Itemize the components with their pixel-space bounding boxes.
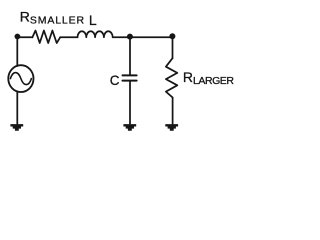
wire capacitor branch upper bbox=[129, 37, 131, 74]
resistor RSMALLER zigzag (horizontal) bbox=[32, 31, 60, 44]
wire left branch down to source bbox=[16, 37, 18, 66]
svg-text:RSMALLER: RSMALLER bbox=[20, 8, 85, 26]
AC source circle bbox=[8, 65, 33, 92]
resistor RLARGER zigzag (vertical) bbox=[166, 58, 177, 97]
ground (source) bbox=[10, 124, 23, 131]
wire inductor to node B bbox=[113, 36, 130, 38]
wire capacitor to ground bbox=[129, 82, 131, 124]
wire top left segment bbox=[17, 36, 32, 38]
node B junction dot bbox=[127, 34, 133, 40]
node A junction dot bbox=[15, 34, 21, 40]
wire node B to node C bbox=[130, 36, 173, 38]
wire source to ground bbox=[16, 92, 18, 124]
wire right branch upper bbox=[172, 37, 174, 58]
wire RLARGER to ground bbox=[172, 98, 174, 124]
node C junction dot bbox=[169, 33, 175, 39]
svg-text:RLARGER: RLARGER bbox=[183, 69, 234, 87]
capacitor C bottom plate bbox=[123, 80, 137, 82]
svg-text:L: L bbox=[89, 12, 97, 28]
inductor L coil (4 humps) bbox=[78, 31, 113, 37]
svg-text:C: C bbox=[110, 73, 120, 88]
wire resistor to inductor bbox=[60, 36, 77, 38]
ground (R larger) bbox=[165, 124, 178, 131]
ground (capacitor) bbox=[123, 124, 136, 131]
capacitor C top plate bbox=[123, 74, 137, 76]
AC source sine wave bbox=[10, 73, 31, 85]
